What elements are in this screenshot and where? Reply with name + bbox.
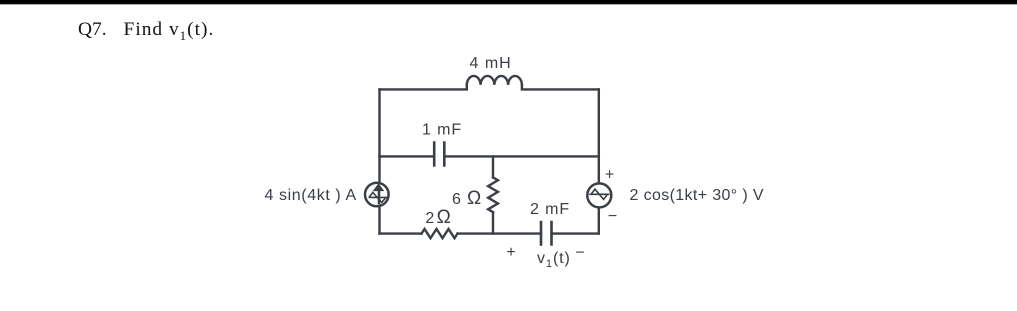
current source sine symbol bbox=[369, 192, 389, 202]
inductor L1 4 mH coil bbox=[467, 76, 522, 85]
resistor R2 2 ohm zigzag bbox=[422, 229, 458, 238]
wire top with inductor steps bbox=[380, 85, 599, 90]
voltage source circle bbox=[587, 183, 611, 207]
svg-text:−: − bbox=[575, 244, 584, 261]
capacitor C1 1 mF plates bbox=[434, 143, 444, 166]
wire right vertical bbox=[598, 89, 600, 233]
svg-text:2 cos(1kt+ 30° ) V: 2 cos(1kt+ 30° ) V bbox=[630, 187, 764, 204]
voltage source V1 (2 cos(1kt+30) V) bbox=[587, 183, 611, 207]
capacitor C2 2 mF plates bbox=[541, 222, 552, 245]
wire middle vertical (6 ohm branch) bbox=[492, 156, 494, 233]
current source arrow head bbox=[373, 183, 385, 191]
svg-text:4 mH: 4 mH bbox=[470, 55, 512, 72]
current source I1 (4 sin(4kt) A) bbox=[365, 183, 389, 207]
voltage source sine symbol bbox=[589, 189, 609, 199]
wire bottom horizontal bbox=[380, 232, 599, 234]
wire middle horizontal (1 mF branch) bbox=[380, 155, 599, 157]
svg-text:2 mF: 2 mF bbox=[530, 201, 570, 218]
current source circle bbox=[365, 183, 389, 207]
svg-text:−: − bbox=[608, 208, 617, 225]
svg-text:+: + bbox=[506, 244, 515, 261]
svg-text:+: + bbox=[605, 167, 614, 184]
svg-text:4 sin(4kt ) A: 4 sin(4kt ) A bbox=[265, 187, 357, 204]
svg-text:2Ω: 2Ω bbox=[425, 207, 450, 228]
current source arrow shaft bbox=[378, 191, 381, 205]
svg-text:1 mF: 1 mF bbox=[422, 122, 462, 139]
title: Q7. Find v1(t). bbox=[78, 20, 214, 42]
svg-text:6Ω: 6Ω bbox=[452, 188, 481, 209]
svg-text:v1(t): v1(t) bbox=[537, 250, 571, 270]
wire left vertical bbox=[378, 89, 380, 233]
resistor R1 6 ohm zigzag bbox=[488, 177, 498, 212]
